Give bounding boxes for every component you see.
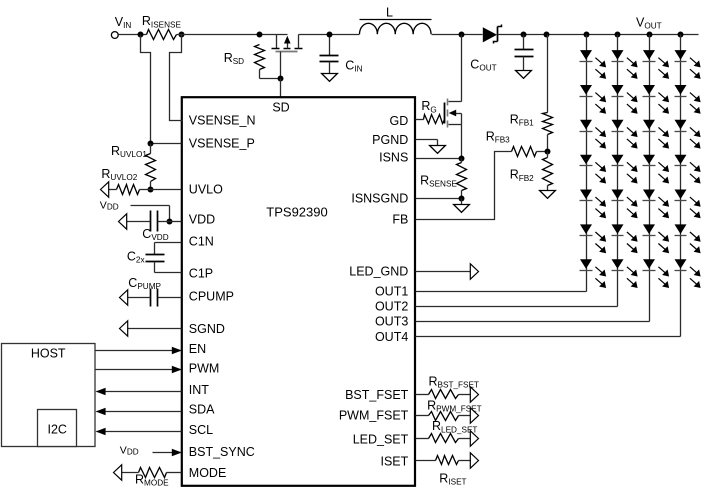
- pin ISNSGND label: [351, 191, 408, 205]
- wire C2x to C1P pin: [155, 262, 182, 273]
- resistor RBST_FSET: [416, 375, 479, 399]
- wire PMOS drain to CIN: [299, 34, 360, 36]
- LED string 2 diode 1: [612, 50, 638, 79]
- connector arrow BST_FSET right: [470, 387, 478, 402]
- LED string 2 diode 2: [612, 85, 638, 114]
- ground ISNSGND: [454, 205, 470, 213]
- connector arrow PWM_FSET right: [470, 408, 478, 423]
- svg-text:MODE: MODE: [189, 466, 227, 480]
- LED string 4 diode 5: [675, 190, 701, 219]
- junction SD gate node: [278, 76, 284, 82]
- svg-text:I2C: I2C: [47, 423, 66, 437]
- LED string 2 diode 6: [612, 224, 638, 253]
- diode D1 schottky: [483, 25, 502, 44]
- connector arrow LED_SET right: [470, 431, 478, 446]
- svg-text:L: L: [386, 6, 393, 20]
- resistor RPWM_FSET: [416, 399, 482, 421]
- pin CPUMP label: [189, 290, 234, 304]
- LED string 1 diode 4: [580, 155, 607, 184]
- pin MODE label: [189, 466, 227, 480]
- LED string 3 diode 4: [643, 155, 670, 184]
- wire PGND to ground: [416, 140, 438, 146]
- svg-text:EN: EN: [189, 342, 206, 356]
- pin C1P label: [189, 267, 213, 281]
- pin VDD label: [189, 213, 215, 227]
- junction rail at CIN: [327, 32, 333, 38]
- junction FB divider node: [545, 149, 551, 155]
- capacitor CPUMP: [128, 276, 161, 307]
- pin FB label: [392, 212, 408, 226]
- wire RSD bottom to gate node: [260, 70, 281, 79]
- pin ISNS label: [379, 150, 408, 164]
- pin LED_SET label: [353, 432, 409, 446]
- wire CPUMP cap to connector: [128, 297, 151, 299]
- pin BST_FSET label: [345, 388, 409, 402]
- resistor RISET: [416, 456, 471, 487]
- wire PMOS gate down: [280, 52, 282, 79]
- pin GD label: [390, 114, 409, 128]
- inductor L: [360, 6, 432, 35]
- pin INT label: [189, 383, 210, 397]
- pin SCL label: [189, 423, 213, 437]
- wire rail RISENSE to PMOS source: [177, 34, 288, 36]
- svg-text:PWM_FSET: PWM_FSET: [339, 408, 409, 422]
- svg-text:OUT1: OUT1: [375, 284, 408, 298]
- junction rail at RFB1: [544, 32, 550, 38]
- svg-text:GD: GD: [390, 114, 409, 128]
- wire EN signal: [96, 347, 182, 355]
- svg-text:ISNS: ISNS: [379, 150, 408, 164]
- LED string 3 diode 7: [643, 259, 670, 288]
- LED string 3 diode 1: [643, 50, 670, 79]
- junction VOUT rail string 2: [615, 32, 621, 38]
- LED string 3 diode 6: [643, 224, 670, 253]
- wire LED string 4: [680, 35, 682, 337]
- wire VIN to RISENSE: [119, 34, 147, 36]
- pin LED_GND label: [349, 265, 408, 279]
- LED string 2 diode 5: [612, 190, 638, 219]
- svg-text:FB: FB: [392, 212, 408, 226]
- junction rail at RSD: [257, 32, 263, 38]
- svg-text:OUT4: OUT4: [375, 330, 408, 344]
- svg-text:VSENSE_N: VSENSE_N: [189, 114, 256, 128]
- pin UVLO label: [189, 183, 223, 197]
- svg-text:UVLO: UVLO: [189, 183, 223, 197]
- resistor RISENSE: [142, 14, 182, 39]
- svg-text:LED_SET: LED_SET: [353, 432, 409, 446]
- wire OUT3 return: [416, 321, 650, 323]
- svg-text:VSENSE_P: VSENSE_P: [189, 137, 255, 151]
- wire SCL signal: [96, 428, 182, 436]
- capacitor CVDD: [127, 211, 170, 243]
- wire inductor to diode: [432, 34, 483, 36]
- connector arrow MODE left: [114, 465, 122, 480]
- connector arrow SGND left: [120, 321, 128, 336]
- svg-text:C1N: C1N: [189, 235, 214, 249]
- pin PGND label: [372, 133, 408, 147]
- pin PWM_FSET label: [339, 408, 409, 422]
- LED string 2 diode 7: [612, 259, 638, 288]
- ground PGND: [430, 146, 446, 154]
- svg-text:C1P: C1P: [189, 267, 213, 281]
- node VIN input terminal: [111, 15, 131, 39]
- wire SD node to SD pin: [280, 79, 282, 98]
- node VDD supply stub: [100, 199, 170, 221]
- junction VDD node: [167, 219, 173, 225]
- resistor RG: [416, 99, 445, 123]
- wire ISNSGND node down: [461, 199, 463, 205]
- LED string 3 diode 5: [643, 190, 670, 219]
- transistor Q2 NMOS boost switch: [445, 99, 462, 128]
- svg-text:ISET: ISET: [381, 454, 409, 468]
- wire ISNS pin to node: [416, 158, 462, 160]
- LED string 3 diode 2: [643, 85, 670, 114]
- wire C1N pin to C2x: [155, 243, 182, 255]
- I2C block: [38, 410, 77, 447]
- node VDD BST_SYNC stub: [120, 445, 182, 457]
- svg-text:SD: SD: [272, 100, 289, 114]
- wire FB pin to divider: [416, 152, 512, 220]
- junction VSENSE_P / RUVLO1: [148, 141, 154, 147]
- wire PWM signal: [96, 366, 182, 374]
- wire Q2 source to ISNS node: [461, 125, 463, 159]
- resistor RFB2: [510, 152, 553, 191]
- svg-text:SCL: SCL: [189, 423, 213, 437]
- junction UVLO node: [148, 187, 154, 193]
- resistor RUVLO2: [101, 167, 150, 195]
- resistor RLED_SET: [416, 419, 478, 442]
- wire VDD node to pin: [170, 221, 182, 223]
- connector arrow UVLO left: [101, 182, 109, 197]
- pin VSENSE_P label: [189, 137, 255, 151]
- LED string 1 diode 5: [580, 190, 607, 219]
- svg-text:VDD: VDD: [189, 213, 215, 227]
- junction VOUT rail string 1: [584, 32, 590, 38]
- connector arrow ISET right: [470, 453, 478, 468]
- svg-text:PWM: PWM: [189, 362, 220, 376]
- wire LED string 3: [649, 35, 651, 322]
- connector arrow CPUMP left: [120, 290, 128, 305]
- ground RFB2: [540, 191, 556, 199]
- wire RUVLO2 to connector: [109, 189, 117, 191]
- svg-text:OUT2: OUT2: [375, 299, 408, 313]
- wire LED string 2: [617, 35, 619, 307]
- LED string 1 diode 7: [580, 259, 607, 288]
- junction rail at boost switch node: [459, 32, 465, 38]
- wire ISNSGND pin to node: [416, 198, 462, 200]
- op-amp U1 TPS92390 IC body: [182, 97, 415, 486]
- resistor RSD: [224, 45, 265, 70]
- LED string 1 diode 6: [580, 224, 607, 253]
- wire CPUMP pin to cap: [158, 297, 182, 299]
- pin SD label: [272, 100, 289, 114]
- wire OUT1 return: [416, 291, 587, 293]
- svg-text:INT: INT: [189, 383, 210, 397]
- resistor RUVLO1: [111, 144, 156, 190]
- pin C1N label: [189, 235, 214, 249]
- wire OUT4 return: [416, 336, 681, 338]
- wire VSENSE_P from RISENSE left node: [141, 35, 182, 144]
- svg-text:SGND: SGND: [189, 322, 225, 336]
- junction rail at COUT: [521, 32, 527, 38]
- pin OUT2 label: [375, 299, 408, 313]
- LED string 4 diode 1: [675, 50, 701, 79]
- pin EN label: [189, 342, 206, 356]
- LED string 4 diode 3: [675, 120, 701, 149]
- svg-text:CPUMP: CPUMP: [189, 290, 234, 304]
- transistor Q1 PMOS input switch: [272, 35, 303, 52]
- junction VOUT rail string 4: [678, 32, 684, 38]
- LED string 1 diode 3: [580, 120, 607, 149]
- svg-text:PGND: PGND: [372, 133, 408, 147]
- LED string 2 diode 4: [612, 155, 638, 184]
- svg-text:ISNSGND: ISNSGND: [351, 191, 408, 205]
- junction VIN rail left of RISENSE: [138, 32, 144, 38]
- host block: [2, 344, 96, 447]
- resistor RMODE: [122, 468, 182, 488]
- pin VSENSE_N label: [189, 114, 256, 128]
- wire switch node down to Q2 drain: [461, 35, 463, 102]
- wire INT signal: [96, 388, 182, 396]
- LED string 2 diode 3: [612, 120, 638, 149]
- ground below CIN: [322, 74, 338, 82]
- capacitor CIN: [320, 35, 363, 74]
- svg-text:HOST: HOST: [31, 346, 66, 360]
- wire SDA signal: [96, 408, 182, 416]
- wire SGND pin to connector: [128, 328, 182, 330]
- LED string 4 diode 7: [675, 259, 701, 288]
- pin PWM label: [189, 362, 220, 376]
- ground below COUT: [516, 71, 532, 79]
- LED string 3 diode 3: [643, 120, 670, 149]
- pin SGND label: [189, 322, 225, 336]
- LED string 4 diode 2: [675, 85, 701, 114]
- pin SDA label: [189, 403, 215, 417]
- node VOUT label: [636, 16, 662, 31]
- svg-text:BST_FSET: BST_FSET: [345, 388, 409, 402]
- svg-text:SDA: SDA: [189, 403, 215, 417]
- connector arrow LED_GND right: [470, 264, 478, 279]
- junction VOUT rail string 3: [647, 32, 653, 38]
- wire VOUT to RFB1: [547, 35, 549, 113]
- junction ISNSGND node: [459, 196, 465, 202]
- LED string 1 diode 2: [580, 85, 607, 114]
- resistor RSENSE: [420, 159, 466, 199]
- svg-text:BST_SYNC: BST_SYNC: [189, 445, 255, 459]
- capacitor C2x: [127, 249, 165, 264]
- wire diode to VOUT rail: [498, 34, 699, 36]
- wire VSENSE_N from RISENSE right node: [170, 35, 183, 121]
- wire UVLO node to pin: [151, 189, 182, 191]
- wire LED_GND to connector: [416, 271, 471, 273]
- connector arrow CVDD left: [119, 214, 127, 229]
- svg-text:OUT3: OUT3: [375, 314, 408, 328]
- junction VIN rail right of RISENSE: [179, 32, 185, 38]
- pin OUT4 label: [375, 330, 408, 344]
- resistor RFB3: [486, 130, 548, 157]
- svg-text:LED_GND: LED_GND: [349, 265, 408, 279]
- pin OUT1 label: [375, 284, 408, 298]
- LED string 4 diode 6: [675, 224, 701, 253]
- pin OUT3 label: [375, 314, 408, 328]
- pin BST_SYNC label: [189, 445, 255, 459]
- wire LED string 1: [586, 35, 588, 292]
- resistor RFB1: [510, 112, 553, 151]
- LED string 4 diode 4: [675, 155, 701, 184]
- svg-text:TPS92390: TPS92390: [266, 205, 327, 220]
- LED string 1 diode 1: [580, 50, 607, 79]
- wire OUT2 return: [416, 306, 618, 308]
- pin ISET label: [381, 454, 409, 468]
- junction ISNS node: [459, 156, 465, 162]
- capacitor COUT: [470, 35, 533, 73]
